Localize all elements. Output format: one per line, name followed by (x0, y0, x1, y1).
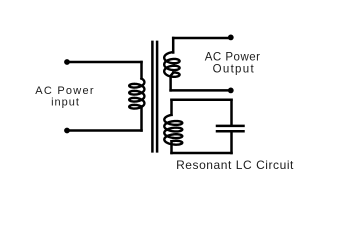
svg-text:AC Power: AC Power (35, 85, 95, 97)
wire: capacitor bottom lead (230, 132, 233, 153)
node: AC input bottom terminal (64, 128, 70, 134)
node: AC output bottom terminal (228, 88, 234, 94)
svg-text:Output: Output (213, 64, 255, 76)
wire: primary top vertical (140, 62, 143, 79)
transformer core line 1 (151, 41, 154, 153)
transformer core line 2 (156, 41, 159, 153)
wire: LC loop bottom (172, 152, 232, 155)
svg-text:input: input (51, 97, 80, 109)
wire: output top vertical (172, 38, 175, 53)
wire: output top horizontal (173, 37, 231, 40)
capacitor C1 top plate (217, 125, 244, 128)
node: AC output top terminal (228, 35, 234, 41)
inductor L1 primary winding (129, 79, 144, 109)
inductor L2 secondary winding (output) (164, 52, 179, 77)
capacitor C1 bottom plate (217, 130, 244, 133)
wire: LC loop top (172, 99, 232, 102)
wire: capacitor top lead (230, 100, 233, 125)
svg-text:AC Power: AC Power (205, 51, 261, 63)
wire: LC loop left top vertical (170, 100, 173, 115)
wire: input top horizontal (67, 61, 142, 64)
wire: LC loop left bottom vertical (170, 141, 173, 153)
wire: output bottom horizontal (171, 89, 231, 92)
wire: input bottom horizontal (67, 129, 142, 132)
inductor L3 secondary winding (resonant) (164, 115, 182, 145)
wire: output bottom vertical (171, 73, 174, 91)
svg-text:Resonant LC Circuit: Resonant LC Circuit (176, 158, 294, 172)
node: AC input top terminal (64, 59, 70, 65)
wire: primary bottom vertical (140, 107, 143, 131)
